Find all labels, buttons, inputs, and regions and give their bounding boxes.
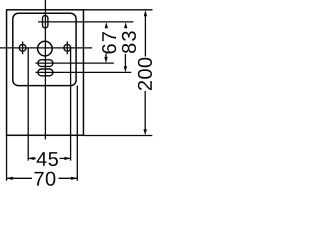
horizontal centerline [0, 47, 92, 49]
slot centerline extension to 67/83 dims [38, 21, 133, 23]
70 dim right arrow [71, 177, 77, 180]
label 70 [35, 172, 56, 186]
83 dim line lower tail [124, 54, 126, 67]
83 dim top arrow [124, 22, 127, 28]
label 67 [102, 32, 116, 53]
right screw hole [64, 44, 71, 51]
70 dim line left tail [7, 177, 32, 179]
oval 2 centerline extension to 83 dim [36, 71, 132, 73]
67 dim line lower tail [105, 54, 107, 58]
67 dim top arrow [105, 22, 108, 28]
oval knockout 2 [38, 69, 53, 76]
top edge extension line to 200 dim [83, 9, 152, 11]
outer plate rectangle [7, 10, 84, 136]
70 dim right extension line [76, 86, 78, 181]
45 dim right arrow [64, 157, 70, 160]
inner rounded mounting plate [13, 13, 76, 85]
200 dim top arrow [144, 10, 147, 16]
45 dim left extension line [27, 48, 29, 161]
big center hole [38, 41, 53, 56]
label 45 [37, 152, 58, 166]
label 200 [138, 58, 152, 90]
67 dim bottom arrow [104, 57, 107, 63]
200 dim line lower segment [144, 91, 146, 132]
45 dim left arrow [28, 157, 34, 160]
oval 1 centerline extension to 67 dim [36, 62, 114, 64]
70 dim line right tail [59, 177, 78, 179]
83 dim bottom arrow [124, 66, 127, 72]
bottom edge extension line to 200 dim [83, 135, 152, 137]
vertical centerline [44, 0, 46, 140]
oval knockout 1 [38, 60, 53, 67]
45 dim right extension line [70, 48, 72, 161]
left screw hole [19, 44, 26, 51]
left hole vertical crosshair [22, 41, 24, 54]
45 dim line right tail [60, 157, 71, 159]
200 dim line upper segment [144, 13, 146, 57]
top slot (vertical stadium hole) [43, 16, 48, 28]
right hole vertical crosshair [66, 41, 68, 54]
label 83 [122, 31, 136, 53]
45 dim line left tail [28, 157, 36, 159]
70 dim left extension line (plate left edge extended) [6, 135, 8, 181]
70 dim left arrow [7, 177, 13, 180]
200 dim bottom arrow [144, 129, 147, 135]
